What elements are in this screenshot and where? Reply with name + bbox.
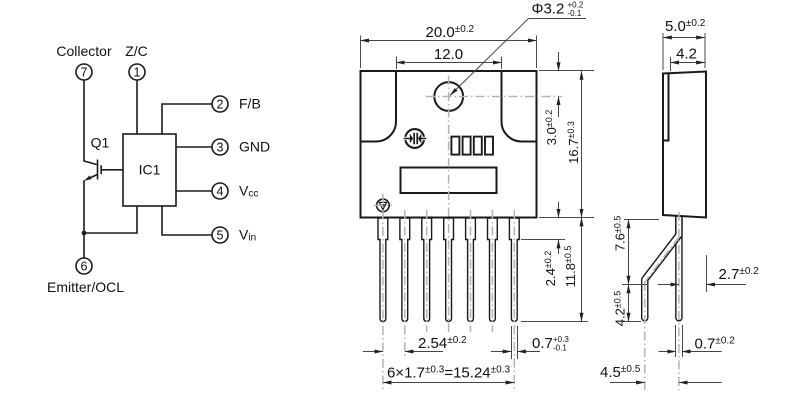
svg-text:-0.1: -0.1	[553, 344, 567, 353]
svg-text:Q1: Q1	[91, 135, 110, 151]
svg-text:GND: GND	[239, 139, 270, 155]
svg-text:12.0: 12.0	[434, 46, 463, 63]
svg-text:-0.1: -0.1	[568, 9, 582, 18]
svg-text:F/B: F/B	[239, 96, 261, 112]
svg-text:1: 1	[134, 66, 141, 80]
svg-text:6: 6	[81, 260, 88, 274]
svg-text:5: 5	[217, 229, 224, 243]
svg-text:2: 2	[217, 98, 224, 112]
svg-text:Emitter/OCL: Emitter/OCL	[47, 279, 124, 295]
svg-text:0.7: 0.7	[532, 335, 553, 352]
svg-text:Z/C: Z/C	[125, 43, 148, 59]
svg-text:Φ3.2: Φ3.2	[532, 1, 565, 18]
svg-text:3: 3	[217, 141, 224, 155]
svg-text:Collector: Collector	[56, 43, 112, 59]
svg-text:4.2: 4.2	[676, 46, 697, 63]
svg-text:7: 7	[81, 66, 88, 80]
svg-text:4: 4	[217, 185, 224, 199]
svg-text:IC1: IC1	[139, 162, 161, 178]
